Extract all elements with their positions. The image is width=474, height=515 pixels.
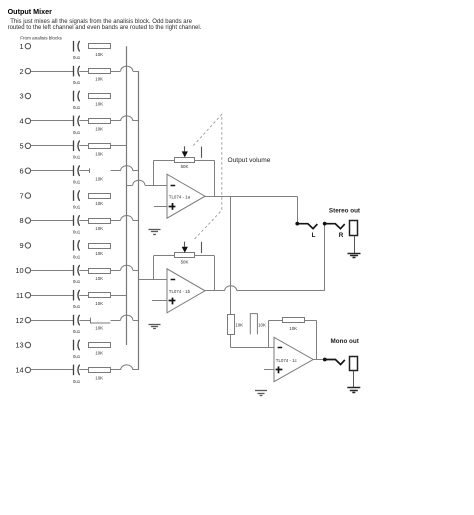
svg-text:TL074 - 1b: TL074 - 1b [169, 289, 191, 294]
wire R11 to left bus [111, 295, 127, 297]
node input 3 [19, 92, 30, 101]
svg-text:This just mixes all the signal: This just mixes all the signals from the… [10, 19, 192, 25]
svg-text:0u1: 0u1 [73, 254, 81, 259]
wire U1a non-inverting input stub [154, 206, 167, 208]
wire stereo jack sleeve to ground [354, 236, 356, 253]
wire U1a output down to L jack tip [297, 196, 299, 223]
resistor R4 10K [89, 119, 111, 124]
svg-text:0u1: 0u1 [73, 354, 81, 359]
svg-text:10K: 10K [95, 102, 103, 107]
svg-text:1: 1 [19, 42, 23, 51]
resistor R13 10K [89, 343, 111, 348]
svg-text:8: 8 [19, 216, 23, 225]
node input 14 [15, 366, 30, 375]
svg-text:10K: 10K [258, 323, 266, 328]
wire R4 right end down to U1c output [304, 320, 317, 359]
svg-text:0u1: 0u1 [73, 329, 81, 334]
wire input 5 to C5 [31, 145, 71, 147]
capacitor C8 0u1 [71, 215, 80, 226]
capacitor C6 0u1 [71, 165, 80, 176]
resistor R5 10K [89, 144, 111, 149]
wire R2 to U1c inverting input [231, 334, 275, 348]
wire C10 to resistor R10 [79, 270, 88, 272]
wire C8 to resistor R8 [79, 220, 88, 222]
wire input 2 to C2 [31, 71, 71, 73]
ground at U1a non-inverting input [149, 230, 161, 235]
wire U1b non-inverting input stub [152, 300, 167, 302]
svg-text:L: L [312, 232, 316, 239]
node input 12 [15, 316, 30, 325]
svg-text:4: 4 [19, 117, 23, 126]
svg-text:Mono out: Mono out [331, 338, 360, 345]
ground at stereo jack sleeve [348, 254, 361, 258]
svg-text:13: 13 [15, 341, 23, 350]
svg-text:10K: 10K [95, 276, 103, 281]
svg-text:50K: 50K [181, 164, 189, 169]
jack J2 R tip contact [325, 224, 345, 229]
resistor R7 10K [89, 194, 111, 199]
svg-text:10K: 10K [95, 52, 103, 57]
svg-text:14: 14 [15, 366, 23, 375]
capacitor C4 0u1 [71, 116, 80, 127]
wire C6 to resistor R6 (broken) [79, 170, 89, 172]
svg-text:Output Mixer: Output Mixer [8, 7, 53, 16]
wire U1a feedback: inverting input up to VR1a left end [154, 160, 175, 185]
node input 4 [19, 117, 30, 126]
resistor R10 10K [89, 269, 111, 274]
resistor R6 10K (missing body, left edge only) [89, 168, 91, 173]
svg-text:10K: 10K [95, 151, 103, 156]
resistor R12 10K (partial outline) [91, 318, 111, 323]
svg-text:6: 6 [19, 166, 23, 175]
wire C2 to resistor R2 [79, 71, 88, 73]
svg-text:10K: 10K [95, 77, 103, 82]
svg-text:9: 9 [19, 241, 23, 250]
resistor R3 10K (mono from R, unconnected) [250, 314, 257, 335]
capacitor C10 0u1 [71, 265, 80, 276]
capacitor C12 0u1 [71, 315, 80, 326]
svg-text:10K: 10K [95, 301, 103, 306]
wire C12 to resistor R12 [79, 320, 90, 322]
ground at mono jack sleeve [347, 388, 360, 393]
jack J3 mono tip contact [325, 360, 345, 365]
svg-text:TL074 - 1c: TL074 - 1c [276, 358, 298, 363]
wire R8 to right bus (hops over left bus) [111, 216, 139, 221]
capacitor C1 0u1 [74, 41, 80, 52]
op-amp U1 TL074-1a [167, 174, 205, 218]
svg-text:R: R [339, 232, 344, 239]
resistor R3 10K [89, 94, 111, 99]
node input 7 [19, 191, 30, 200]
resistor R1 10K [89, 44, 111, 49]
resistor R2 10K [89, 69, 111, 74]
wire U1c feedback: inverting input node up to R4 [268, 320, 270, 348]
svg-text:0u1: 0u1 [73, 180, 81, 185]
svg-text:50K: 50K [181, 260, 189, 265]
left bus (odd bands, net L-SUM) [126, 46, 128, 345]
svg-text:0u1: 0u1 [73, 379, 81, 384]
wire R6 to right bus (hops over left bus) [111, 166, 139, 171]
node input 2 [19, 67, 30, 76]
svg-text:5: 5 [19, 142, 23, 151]
wire R10 to right bus (hops over left bus) [111, 265, 139, 270]
svg-text:0u1: 0u1 [73, 55, 81, 60]
svg-text:10K: 10K [95, 226, 103, 231]
svg-text:routed to the left channel and: routed to the left channel and even band… [8, 25, 202, 31]
svg-text:10K: 10K [95, 127, 103, 132]
jack sleeve (mono) [350, 357, 358, 371]
jack J1 L tip contact [297, 224, 317, 229]
capacitor C2 0u1 [71, 66, 80, 77]
ground at U1c non-inverting input [255, 391, 267, 396]
capacitor C9 0u1 [74, 240, 80, 251]
wire U1b output to R jack (hops over mono feed wire) [205, 286, 325, 291]
wire U1b output up to R jack tip [324, 223, 326, 291]
capacitor C14 0u1 [71, 365, 80, 376]
node R output junction [323, 222, 327, 226]
wire U1c output to mono jack [313, 359, 325, 361]
svg-text:0u1: 0u1 [73, 130, 81, 135]
wire VR1b right end down to U1b output [194, 256, 215, 291]
ground at U1b non-inverting input [149, 325, 161, 329]
svg-text:2: 2 [19, 67, 23, 76]
svg-text:3: 3 [19, 92, 23, 101]
node input 6 [19, 166, 30, 175]
node input 1 [19, 42, 30, 51]
wire input 14 to C14 [31, 369, 71, 371]
wire input 6 to C6 [31, 170, 71, 172]
wire input 10 to C10 [31, 270, 71, 272]
resistor R4 10K (mono feedback) [283, 318, 305, 323]
svg-text:10K: 10K [289, 326, 297, 331]
wire U1c non-inverting input stub [264, 369, 274, 371]
node input 11 [16, 291, 31, 300]
svg-text:From analisis blocks: From analisis blocks [20, 36, 62, 41]
capacitor C13 0u1 [74, 340, 80, 351]
svg-text:0u1: 0u1 [73, 105, 81, 110]
jack sleeve (stereo) [350, 221, 358, 236]
node mono output junction [323, 358, 327, 362]
wire U1a output to L jack [205, 196, 297, 198]
right bus (even bands, net R-SUM) [138, 71, 140, 370]
svg-text:10K: 10K [235, 323, 243, 328]
wire VR1a right end down to U1a output [194, 160, 215, 196]
op-amp U1c TL074-1c [274, 337, 313, 381]
wire C14 to resistor R14 [79, 369, 88, 371]
op-amp U1 TL074-1b [167, 269, 205, 313]
svg-text:11: 11 [16, 291, 24, 300]
svg-text:0u1: 0u1 [73, 80, 81, 85]
wire right bus to U1b inverting input [139, 279, 167, 281]
potentiometer VR1b 50K [175, 242, 202, 258]
capacitor C7 0u1 [74, 190, 80, 201]
node input 8 [19, 216, 30, 225]
wire U1b feedback: inverting input up to VR1b left end [154, 256, 175, 280]
svg-text:10K: 10K [95, 351, 103, 356]
wire input 11 to C11 [31, 295, 71, 297]
capacitor C11 0u1 [71, 290, 80, 301]
wire R2 to right bus (hops over left bus) [111, 66, 139, 71]
node input 9 [19, 241, 30, 250]
resistor R11 10K [89, 293, 111, 298]
svg-text:TL074 - 1a: TL074 - 1a [169, 194, 191, 199]
wire C5 to resistor R5 [79, 145, 88, 147]
node input 13 [15, 341, 30, 350]
svg-text:10K: 10K [95, 201, 103, 206]
svg-text:0u1: 0u1 [73, 279, 81, 284]
svg-text:10K: 10K [95, 376, 103, 381]
svg-text:Stereo out: Stereo out [329, 207, 361, 214]
wire C4 to resistor R4 [79, 120, 88, 122]
wire C11 to resistor R11 [79, 295, 88, 297]
node input 10 [15, 266, 30, 275]
node L output junction [295, 222, 299, 226]
wire input 12 to C12 [31, 320, 71, 322]
wire U1a output down to R2 (mono feed L) [230, 196, 232, 314]
resistor R8 10K [89, 219, 111, 224]
svg-text:0u1: 0u1 [73, 304, 81, 309]
svg-text:Output volume: Output volume [228, 157, 271, 164]
dashed gang link of dual potentiometer (output volume) [193, 114, 222, 240]
capacitor C3 0u1 [74, 91, 80, 102]
wire input 8 to C8 [31, 220, 71, 222]
wire input 4 to C4 [31, 120, 71, 122]
wire R12 to right bus (hops over left bus) [111, 315, 139, 320]
svg-text:10K: 10K [95, 176, 103, 181]
potentiometer VR1a 50K [175, 146, 202, 162]
wire R14 to right bus (hops over left bus) [111, 365, 139, 370]
node input 5 [19, 142, 30, 151]
resistor R9 10K [89, 244, 111, 249]
wire R4 to right bus (hops over left bus) [111, 116, 139, 121]
wire mono jack sleeve to ground [353, 371, 355, 388]
svg-text:10K: 10K [95, 251, 103, 256]
svg-text:10K: 10K [95, 326, 103, 331]
svg-text:0u1: 0u1 [73, 155, 81, 160]
svg-text:0u1: 0u1 [73, 229, 81, 234]
resistor R14 10K [89, 368, 111, 373]
capacitor C5 0u1 [71, 141, 80, 152]
wire R5 to left bus [111, 145, 127, 147]
resistor R2 10K (mono from L) [228, 315, 235, 335]
wire left bus to U1a inverting input (hops over right bus) [127, 180, 167, 185]
svg-text:7: 7 [19, 191, 23, 200]
svg-text:10: 10 [15, 266, 23, 275]
svg-text:12: 12 [15, 316, 23, 325]
wire R4 left lead [269, 320, 283, 322]
svg-text:0u1: 0u1 [73, 205, 81, 210]
